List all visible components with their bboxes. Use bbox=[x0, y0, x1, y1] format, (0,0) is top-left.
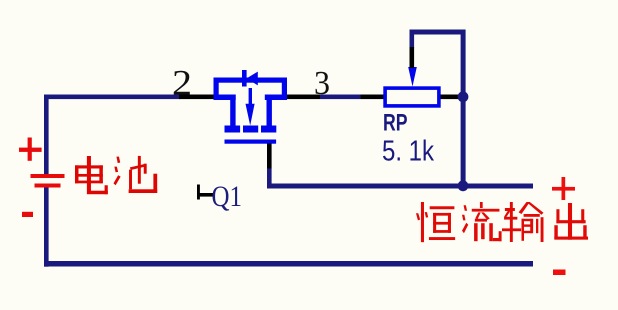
Q1 top bar (source strap) bbox=[214, 78, 288, 83]
Q1 left bracket bbox=[214, 78, 236, 101]
potentiometer RP wiper arrow bbox=[408, 67, 417, 87]
glyph 恒 bbox=[416, 202, 455, 242]
Q1 contact bar right bbox=[261, 126, 276, 133]
label: output minus sign bbox=[553, 270, 566, 276]
Q1 body diode triangle bbox=[247, 72, 258, 86]
battery B1 positive plate bbox=[31, 174, 65, 178]
Q1 right inner stub bbox=[267, 95, 272, 126]
Q1 gate bar bbox=[225, 140, 277, 144]
wire: top rail black segment (node 2 to Q1) bbox=[179, 95, 214, 100]
label: battery name 电池 (drawn glyphs) bbox=[75, 156, 157, 194]
wire: RP left stub black bbox=[361, 95, 384, 100]
wire: output positive rail bbox=[267, 184, 533, 189]
glyph 池 bbox=[114, 156, 158, 193]
glyph 出 bbox=[554, 203, 588, 240]
Q1 right bracket bbox=[265, 78, 287, 101]
svg-text:Q1: Q1 bbox=[212, 181, 243, 213]
svg-text:RP: RP bbox=[383, 110, 408, 137]
wire: wiper loop left vertical black part bbox=[410, 47, 415, 68]
label: output plus sign bbox=[552, 177, 575, 200]
glyph 电 bbox=[75, 156, 108, 194]
wire: RP right stub black bbox=[441, 95, 462, 100]
label: Q1 gate lead pointer tick bbox=[197, 185, 200, 200]
glyph 输 bbox=[502, 202, 544, 242]
Q1 channel arrow head bbox=[246, 104, 255, 126]
wire: battery negative lead (left vertical, lower) bbox=[44, 187, 49, 267]
wire: Q1 drain drop navy part bbox=[267, 169, 272, 189]
wire: top rail navy segment (battery + to node 2) bbox=[44, 95, 180, 100]
wire: wiper loop top horizontal navy bbox=[410, 30, 466, 35]
label: Q1 gate lead pointer line bbox=[197, 193, 215, 197]
Q1 left inner stub bbox=[230, 95, 235, 126]
Q1 channel arrow stem bbox=[249, 88, 252, 105]
wire: battery positive lead (left vertical, upper) bbox=[44, 95, 49, 175]
svg-text:2: 2 bbox=[172, 63, 192, 103]
wire: wiper loop left vertical navy part bbox=[410, 30, 415, 48]
svg-text:5. 1k: 5. 1k bbox=[382, 136, 434, 168]
Q1 contact bar left bbox=[225, 126, 241, 133]
battery B1 negative plate bbox=[35, 184, 61, 188]
glyph 流 bbox=[462, 202, 502, 241]
wire: Q1 to RP navy segment bbox=[320, 95, 361, 100]
battery plus sign bbox=[19, 138, 42, 161]
wire: Q1 to RP black segment bbox=[287, 95, 320, 100]
wire: right vertical rail navy bbox=[461, 30, 466, 189]
Q1 body diode cathode bar bbox=[242, 70, 247, 87]
battery minus sign bbox=[22, 212, 33, 217]
Q1 contact bar middle bbox=[243, 126, 258, 133]
junction: output positive node bbox=[458, 180, 469, 191]
wire: bottom return rail bbox=[44, 261, 533, 267]
transistor Q1 (MOSFET symbol, blue) bbox=[214, 70, 288, 144]
junction: RP right terminal node bbox=[458, 91, 469, 102]
wire: Q1 drain drop black part bbox=[267, 144, 272, 169]
potentiometer RP body bbox=[385, 88, 439, 106]
label: output name 恒流输出 (drawn glyphs) bbox=[416, 202, 588, 242]
